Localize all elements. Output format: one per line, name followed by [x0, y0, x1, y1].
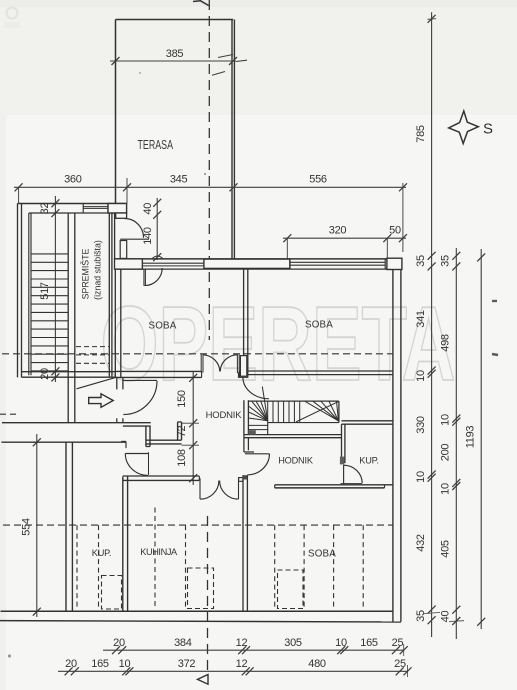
svg-text:305: 305 — [284, 637, 302, 649]
dimension 385 terrace — [110, 60, 236, 62]
house north wall inner line — [115, 268, 387, 270]
house west wall outer line upper — [114, 213, 116, 259]
svg-text:40: 40 — [440, 611, 452, 623]
stair block outer west wall — [17, 204, 19, 378]
stair door leaf — [240, 356, 246, 377]
svg-text:(iznad stubišta): (iznad stubišta) — [93, 240, 103, 300]
walkway band left cap — [121, 440, 126, 442]
soba wall foot — [239, 373, 248, 377]
svg-text:40: 40 — [142, 203, 154, 215]
french double door to soba1 — [200, 355, 202, 373]
stair block top wall — [18, 203, 127, 205]
svg-text:517: 517 — [39, 282, 51, 300]
svg-text:10: 10 — [415, 471, 427, 483]
svg-text:360: 360 — [64, 174, 82, 186]
spremiste right wall — [108, 213, 110, 377]
dimension 150/72/108 (x=193.2) — [192, 371, 194, 485]
svg-text:SOBA: SOBA — [308, 549, 336, 560]
svg-text:432: 432 — [415, 534, 427, 552]
svg-text:330: 330 — [415, 416, 427, 434]
bottom dim end extensions — [403, 644, 405, 656]
scan artifact top-left faint ring — [7, 8, 18, 19]
dimension line 1193 (x=481.2) — [480, 249, 482, 629]
svg-text:320: 320 — [329, 225, 347, 237]
short dashed line left margin — [0, 413, 20, 415]
paper shading — [0, 0, 517, 115]
winder straight treads — [267, 401, 269, 423]
scan speck left bottom — [8, 654, 11, 657]
stair inner left wall line — [28, 213, 30, 375]
stair break diagonal — [77, 378, 115, 389]
svg-text:10: 10 — [440, 483, 452, 495]
scan speck right margin — [492, 300, 497, 302]
dimension line 35/498/10/200/10/405/40 (x=456.3) — [455, 248, 457, 639]
terrace right edge wall (double) — [231, 20, 233, 260]
svg-text:405: 405 — [440, 540, 452, 558]
pier at stair top right — [108, 204, 127, 214]
terrace top edge wall — [116, 19, 234, 21]
svg-text:35: 35 — [415, 255, 427, 267]
svg-text:480: 480 — [308, 658, 326, 670]
winder fan left — [252, 402, 268, 421]
section line upper (dashed) — [208, 0, 210, 340]
svg-text:HODNIK: HODNIK — [278, 455, 314, 465]
leader marks near terrace right — [218, 55, 233, 58]
kup door leaf — [343, 465, 345, 484]
svg-text:HODNIK: HODNIK — [206, 410, 243, 421]
svg-text:50: 50 — [389, 225, 401, 237]
svg-text:341: 341 — [415, 310, 427, 328]
wall between kuhinja and soba3 — [242, 475, 244, 611]
extension lines for top dimension row — [18, 187, 20, 203]
soba2 window — [290, 261, 385, 263]
walkway band bottom line — [1, 441, 126, 443]
kup north wall — [342, 420, 393, 422]
stair block bottom lines — [244, 434, 342, 436]
svg-text:108: 108 — [176, 449, 188, 467]
kup door arc — [344, 465, 363, 483]
dimension line 785/35/341/10/330/10/432/35 (x=431.6) — [431, 12, 433, 637]
svg-text:10: 10 — [119, 658, 131, 670]
stair bottom-left small treads — [248, 424, 267, 426]
svg-text:556: 556 — [309, 174, 327, 186]
lintel box over opening — [204, 259, 290, 268]
svg-text:20: 20 — [39, 368, 51, 380]
dashed roof projection verticals — [76, 525, 78, 609]
furniture dashed rect kuhinja — [188, 568, 214, 609]
dimension row 360 345 556 — [14, 186, 406, 188]
house bottom wall outer line — [0, 621, 401, 622]
scan speck terrace — [204, 173, 206, 175]
svg-text:20: 20 — [113, 637, 125, 649]
svg-text:384: 384 — [174, 637, 192, 649]
soba bottom wall left segment — [115, 370, 202, 372]
svg-text:OPERETA: OPERETA — [101, 285, 456, 403]
dimension 554 (x=36.8) — [36, 434, 38, 617]
svg-text:SPREMIŠTE: SPREMIŠTE — [81, 248, 91, 299]
spremiste dashed floor lines — [76, 346, 109, 348]
svg-text:200: 200 — [440, 444, 452, 462]
svg-text:10: 10 — [335, 637, 347, 649]
stair lower-left wall stub — [243, 435, 245, 452]
wall between soba1 and soba2 — [243, 268, 245, 373]
stair door arc — [243, 378, 269, 399]
door arc lower kup — [125, 453, 148, 455]
north wall solid left piece — [115, 259, 143, 269]
bottom dimension row 2 (20/165/10/372/12/480/25) — [58, 670, 408, 672]
svg-text:10: 10 — [415, 370, 427, 382]
stair treads — [31, 253, 68, 255]
svg-text:KUHINJA: KUHINJA — [140, 547, 178, 557]
svg-text:SOBA: SOBA — [305, 320, 333, 331]
svg-text:372: 372 — [178, 658, 196, 670]
svg-text:785: 785 — [415, 125, 427, 143]
section line marker top — [193, 1, 209, 6]
svg-text:554: 554 — [21, 518, 33, 536]
stair block bottom edge — [22, 371, 116, 373]
corner pier north-east — [387, 258, 402, 269]
svg-text:165: 165 — [360, 637, 378, 649]
house bottom wall inner line — [1, 610, 393, 612]
winder stair block walls — [243, 400, 245, 434]
direction arrow on landing — [89, 394, 114, 408]
kup west wall — [341, 424, 343, 463]
furniture dashed rect kup — [102, 576, 122, 610]
wall between kup and kuhinja — [122, 477, 124, 612]
entry door arc from terrace — [125, 219, 144, 238]
soba1 interior door leaf and arc — [143, 269, 145, 286]
svg-text:25: 25 — [392, 637, 404, 649]
section line lower (dashed) — [207, 516, 209, 673]
svg-text:12: 12 — [236, 658, 248, 670]
east wall — [392, 270, 394, 622]
window in stair top wall — [83, 206, 108, 208]
svg-text:150: 150 — [176, 390, 188, 408]
svg-text:35: 35 — [415, 610, 427, 622]
partition line below chimney — [148, 452, 150, 475]
furniture dashed rect soba3 — [278, 570, 304, 609]
stair middle wall — [67, 213, 69, 423]
soba1 window — [142, 262, 204, 264]
chimney channel shape — [123, 425, 151, 427]
casement arc above soba1 window — [152, 256, 164, 259]
dashed attic line across lower rooms — [3, 524, 393, 526]
kuhinja north wall — [123, 475, 200, 477]
dimension 320 and 50 — [283, 237, 406, 239]
kuhinja double swing door — [199, 478, 201, 499]
svg-text:TERASA: TERASA — [138, 137, 174, 152]
svg-text:SOBA: SOBA — [148, 321, 176, 332]
dimension 40 and 140 vertical — [156, 198, 158, 260]
house north wall outer line — [115, 258, 387, 260]
walking line tail — [262, 387, 267, 421]
bottom dimension row 1 (20/384/12/305/10/165/25) — [103, 649, 404, 651]
svg-text:20: 20 — [65, 658, 77, 670]
walkway band top line — [2, 422, 151, 424]
terrace left edge wall — [115, 20, 117, 204]
svg-text:12: 12 — [236, 637, 248, 649]
dimension 32/517/20 (x=55.4) — [54, 196, 56, 382]
svg-text:385: 385 — [166, 48, 184, 60]
soba bottom wall right segment — [240, 370, 393, 372]
svg-text:10: 10 — [440, 414, 452, 426]
extension ticks right side (short) — [424, 613, 440, 614]
compass star — [449, 111, 479, 144]
kuhinja north wall right end cap — [239, 478, 243, 482]
soba1 west wall — [114, 269, 116, 377]
svg-text:345: 345 — [170, 174, 188, 186]
svg-text:25: 25 — [394, 658, 406, 670]
svg-text:498: 498 — [440, 334, 452, 352]
svg-text:35: 35 — [440, 255, 452, 267]
svg-text:1193: 1193 — [465, 426, 477, 449]
door from landing to hodnik (arc) — [124, 379, 158, 381]
svg-text:KUP.: KUP. — [359, 455, 378, 465]
svg-text:S: S — [483, 121, 493, 138]
svg-text:KUP.: KUP. — [92, 548, 111, 558]
dashed line through upper rooms — [2, 353, 393, 355]
stair exit door leaf and arc — [245, 453, 270, 455]
svg-text:165: 165 — [91, 658, 109, 670]
kup lower west wall — [65, 442, 67, 611]
entry door leaf — [120, 241, 127, 259]
winder fan right — [305, 401, 339, 421]
house west wall below soba1 — [116, 377, 118, 389]
section line marker bottom — [198, 675, 209, 685]
hodnik south wall — [275, 484, 393, 486]
